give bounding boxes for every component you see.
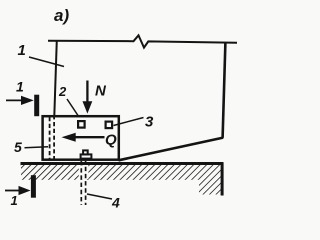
dashed pin 4 (two dashed lines into ground) (80, 161, 82, 205)
svg-text:Q: Q (105, 132, 117, 149)
svg-text:1: 1 (11, 193, 18, 208)
lower anchor bolt bar (31, 175, 36, 198)
callout 5 leader (25, 147, 49, 148)
right small square pad (106, 122, 113, 129)
left small square pad (78, 121, 85, 128)
hidden wall edge: double dashed lines inside block (49, 117, 51, 159)
ground right edge (221, 163, 224, 196)
svg-text:3: 3 (145, 114, 154, 131)
callout 3 leader (114, 118, 144, 126)
wall panel left edge (54, 40, 57, 116)
svg-text:4: 4 (111, 195, 120, 211)
svg-text:5: 5 (14, 139, 22, 155)
callout 4 leader (87, 194, 112, 199)
wall panel right edge (223, 43, 226, 138)
block (bearing pad) outline (43, 116, 119, 160)
wall panel bottom slanted edge (119, 138, 224, 161)
svg-text:2: 2 (58, 84, 67, 99)
pedestal lug under block (81, 154, 92, 158)
svg-text:N: N (95, 83, 107, 100)
force arrow Q (74, 136, 105, 138)
svg-text:1: 1 (18, 42, 26, 59)
lower anchor arrow (5, 190, 20, 192)
svg-text:1: 1 (16, 79, 24, 95)
ground deeper hatched block at right (199, 165, 222, 195)
force arrow N (86, 81, 88, 104)
upper anchor bolt bar (34, 95, 39, 117)
ground top edge (21, 162, 224, 165)
callout 2 leader (67, 99, 79, 117)
svg-text:а): а) (54, 6, 69, 25)
upper anchor arrow (6, 99, 23, 101)
ground hatched band (21, 165, 222, 180)
white channel for dashed pin through ground (79, 165, 89, 179)
wall panel top edge with break symbol (48, 35, 237, 47)
callout 1 (wall) leader (29, 57, 64, 67)
